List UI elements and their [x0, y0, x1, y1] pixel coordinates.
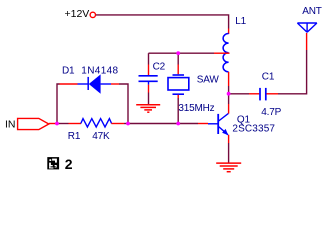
junction node SAW bottom rail [176, 122, 180, 126]
svg-text:1N4148: 1N4148 [81, 65, 118, 76]
wire D1 left vertical [57, 84, 60, 124]
pin red segment C1 left [249, 93, 259, 95]
svg-text:+12V: +12V [65, 8, 90, 20]
pin red segment R1 right [111, 123, 124, 125]
pin red segment C1 right [267, 93, 279, 95]
wire emitter to ground [228, 143, 230, 163]
pin red segment D1 right [111, 83, 119, 85]
pin red segment top of L1 [228, 29, 230, 35]
pin red segment IN to junction [49, 123, 57, 125]
diode D1 [78, 74, 112, 93]
wire bottom rail junction to R1 [57, 123, 69, 125]
junction node L1/C1/collector [227, 92, 231, 96]
pin red segment R1 left [69, 123, 82, 125]
pin red segment SAW bottom [177, 95, 179, 98]
ground under C2 [136, 105, 160, 113]
wire SAW top stem [177, 53, 179, 64]
wire C2 stem upper [148, 53, 150, 64]
antenna ANT symbol [297, 23, 317, 32]
pin red segment SAW top [177, 65, 179, 75]
svg-text:47K: 47K [92, 131, 110, 142]
wire L1 bottom to collector junction [228, 86, 230, 94]
SAW resonator [168, 75, 189, 94]
capacitor C1 [260, 88, 266, 101]
wire SAW bottom stem [177, 98, 179, 124]
wire bottom rail R1 to D1 corner junction [124, 123, 128, 125]
power terminal +12V circle [90, 12, 95, 17]
ground under Q1 emitter [216, 163, 241, 172]
svg-text:C2: C2 [153, 62, 166, 73]
svg-text:315MHz: 315MHz [178, 103, 214, 114]
wire C2 to ground [148, 93, 150, 105]
wire D1 right vertical [119, 84, 128, 124]
pin red segment Q1 collector [228, 104, 230, 114]
resistor R1 zigzag [81, 119, 112, 127]
pin red segment Q1 base [198, 123, 208, 125]
junction node IN/R1/D1 [55, 122, 59, 126]
junction node R1/D1 right [126, 122, 130, 126]
pin red segment tap at L1 [214, 52, 230, 54]
svg-text:L1: L1 [235, 16, 246, 27]
pin red segment C2 top [148, 65, 150, 76]
pin red segment antenna lead [306, 33, 308, 50]
svg-text:R1: R1 [68, 131, 81, 142]
junction node SAW top tap rail [176, 51, 180, 55]
wire collector junction to Q1 [228, 94, 230, 104]
wire collector junction to C1 [229, 93, 249, 95]
svg-text:4.7P: 4.7P [261, 107, 281, 118]
transistor Q1 [208, 113, 228, 135]
svg-text:D1: D1 [62, 65, 75, 76]
svg-text:C1: C1 [262, 72, 275, 83]
svg-text:ANT: ANT [302, 6, 321, 17]
pin red segment below L1 [228, 72, 230, 86]
svg-text:2SC3357: 2SC3357 [232, 123, 275, 134]
svg-text:SAW: SAW [197, 75, 220, 86]
caption figure glyph 图 [47, 157, 59, 169]
port IN connector [18, 118, 49, 129]
wire top rail from +12V to corner above L1 [96, 15, 229, 29]
wire C1 to antenna lead [278, 50, 307, 94]
wire bottom rail SAW junction towards Q1 base [178, 123, 198, 125]
pin red segment D1 left [60, 83, 78, 85]
capacitor C2 [139, 76, 158, 85]
pin red segment C2 bottom [148, 85, 150, 93]
svg-text:2: 2 [65, 156, 73, 172]
wire tap rail C2 to L1 tap [149, 52, 215, 54]
wire bottom rail D1 junction to SAW junction [128, 123, 178, 125]
svg-text:IN: IN [5, 119, 16, 131]
pin red segment Q1 emitter [228, 135, 230, 143]
inductor L1 [223, 34, 228, 72]
